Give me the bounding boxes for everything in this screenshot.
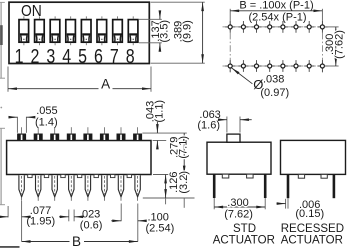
dimension .063 (1.6) actuator width	[197, 109, 251, 133]
svg-text:8: 8	[126, 45, 135, 67]
switch slot 5	[81, 16, 91, 45]
svg-text:4: 4	[62, 45, 71, 67]
hole row 1 pin 5	[278, 21, 288, 33]
switch slot 8	[128, 16, 138, 45]
switch slot 3	[50, 16, 60, 45]
svg-text:1: 1	[15, 45, 24, 67]
svg-text:ACTUATOR: ACTUATOR	[213, 234, 275, 246]
svg-text:RECESSED: RECESSED	[281, 223, 344, 235]
switch slot 4	[66, 16, 76, 45]
dimension .055 (1.4) actuator width	[10, 105, 58, 133]
standoff notch 1 on side view base	[28, 175, 32, 178]
standoff notch 5 on side view base	[94, 175, 98, 178]
dimension .077 (1.95) body edge to pin 1	[1, 201, 56, 242]
dimension .300 (7.62) row spacing	[324, 27, 346, 66]
side view actuator 4	[67, 127, 76, 140]
svg-text:(1.6): (1.6)	[197, 119, 220, 131]
dimension B pin span	[22, 234, 138, 248]
dimension .023 (0.6) pin thickness	[59, 208, 102, 231]
hole row 2 pin 2	[238, 60, 248, 72]
side view pin 2	[36, 175, 41, 201]
svg-text:(2.54x (P-1): (2.54x (P-1)	[248, 11, 306, 23]
dimension B = .100x (P-1) hole pitch	[230, 0, 322, 23]
svg-text:(0.15): (0.15)	[295, 208, 324, 220]
svg-text:.100: .100	[148, 211, 169, 223]
svg-text:5: 5	[78, 45, 87, 67]
hole row 2 pin 5	[278, 60, 288, 72]
svg-text:.055: .055	[36, 105, 57, 117]
dimension .137 (3.5) slot height	[139, 12, 170, 49]
standoff notch 4 on side view base	[77, 175, 81, 178]
PCB hole pattern: centerline box	[223, 21, 331, 73]
dimension .300 (7.62) pin row spacing	[214, 197, 265, 221]
svg-text:7: 7	[110, 45, 119, 67]
svg-text:(1.1): (1.1)	[154, 100, 166, 123]
side view actuator 1	[17, 127, 26, 140]
svg-text:(1.4): (1.4)	[35, 116, 58, 128]
standoff notch 3 on side view base	[61, 175, 65, 178]
side view: switch body	[7, 141, 151, 175]
switch slot 6	[97, 16, 107, 45]
svg-text:6: 6	[94, 45, 103, 67]
side view actuator 3	[50, 127, 59, 140]
side view actuator 8	[133, 127, 142, 140]
standoff notch 6 on side view base	[111, 175, 115, 178]
recessed end view standoff notches	[298, 174, 327, 178]
svg-text:(7.62): (7.62)	[224, 209, 253, 221]
dimension .100 (2.54) pin pitch	[111, 204, 174, 242]
side view pin 8	[135, 175, 140, 201]
top view: DIP switch body outline	[9, 2, 149, 63]
dimension .043 (1.1) actuator height	[142, 100, 186, 148]
svg-text:B: B	[72, 234, 81, 248]
hole row 2 pin 8	[317, 60, 327, 72]
std end view pin right	[264, 174, 267, 209]
dimension A overall width	[8, 67, 151, 92]
svg-text:(3.5): (3.5)	[158, 20, 170, 43]
svg-text:2: 2	[31, 45, 40, 67]
hole row 1 pin 2	[238, 21, 248, 33]
dimension .006 (0.15) recess offset	[277, 199, 325, 220]
label RECESSED ACTUATOR	[281, 223, 344, 247]
hole row 1 pin 4	[265, 21, 275, 33]
side view pin 5	[85, 175, 90, 201]
switch slot 2	[35, 16, 45, 45]
dimension .126 (3.2) pin length	[143, 171, 195, 204]
side view pin 6	[102, 175, 107, 201]
svg-text:(9.9): (9.9)	[182, 20, 194, 43]
side view pin 3	[52, 175, 57, 201]
hole row 2 pin 7	[304, 60, 314, 72]
side view pin 7	[118, 175, 123, 201]
recessed end view pin right	[333, 174, 336, 198]
hole row 1 pin 8	[317, 21, 327, 33]
svg-text:.038: .038	[263, 74, 284, 86]
hole row 1 pin 6	[291, 21, 301, 33]
svg-text:ACTUATOR: ACTUATOR	[281, 234, 343, 246]
dimension .389 (9.9) body height	[151, 2, 205, 63]
svg-text:(7.62): (7.62)	[334, 30, 346, 59]
std actuator end view: actuator bump	[227, 134, 240, 142]
hole row 1 pin 7	[304, 21, 314, 33]
std end view pin left	[213, 174, 216, 209]
hole row 2 pin 6	[291, 60, 301, 72]
svg-text:B = .100x (P-1): B = .100x (P-1)	[239, 0, 313, 12]
svg-text:(0.97): (0.97)	[260, 87, 289, 99]
std actuator end view: body	[207, 142, 271, 174]
switch slot 1	[19, 16, 29, 45]
hole row 2 pin 1	[225, 60, 235, 72]
standoff notch 2 on side view base	[44, 175, 48, 178]
svg-text:3: 3	[46, 45, 55, 67]
svg-text:(0.6): (0.6)	[80, 220, 103, 232]
svg-text:(2.54): (2.54)	[146, 223, 175, 235]
label STD ACTUATOR	[213, 223, 275, 247]
side view actuator 5	[83, 127, 92, 140]
side view pin 4	[69, 175, 74, 201]
recessed actuator end view: body	[281, 140, 346, 174]
svg-text:(7.1): (7.1)	[178, 136, 190, 159]
standoff notch 7 on side view base	[127, 175, 131, 178]
side view pin 1	[19, 175, 24, 201]
switch slot 7	[113, 16, 123, 45]
side view actuator 2	[34, 127, 43, 140]
hole row 1 pin 1	[225, 21, 235, 33]
svg-text:(3.2): (3.2)	[178, 171, 190, 194]
svg-text:.300: .300	[227, 197, 248, 209]
svg-text:.023: .023	[79, 208, 100, 220]
svg-text:STD: STD	[233, 223, 256, 235]
side view actuator 6	[100, 127, 109, 140]
hole row 1 pin 3	[252, 21, 262, 33]
hole row 2 pin 4	[265, 60, 275, 72]
svg-text:(1.95): (1.95)	[26, 216, 55, 228]
std end view standoff notches	[222, 174, 253, 178]
dimension .279 (7.1) overall height	[168, 133, 189, 208]
hole row 2 pin 3	[252, 60, 262, 72]
svg-text:A: A	[101, 77, 110, 92]
side view actuator 7	[117, 127, 126, 140]
recessed end view pin left	[287, 174, 290, 208]
leader and label: hole diameter .038 (0.97)	[232, 68, 290, 99]
